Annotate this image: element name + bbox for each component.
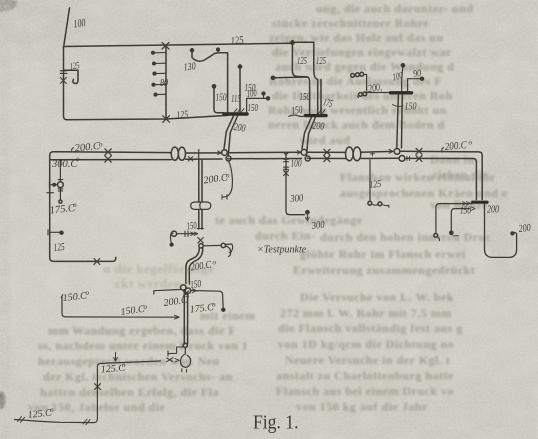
svg-text:ung, die auch darunter- und: ung, die auch darunter- und xyxy=(316,2,473,16)
svg-text:150: 150 xyxy=(216,93,228,104)
svg-text:200.C: 200.C xyxy=(444,140,468,153)
svg-text:300: 300 xyxy=(310,220,326,232)
svg-text:200: 200 xyxy=(233,122,246,135)
node T3a xyxy=(394,149,400,155)
svg-text:125: 125 xyxy=(369,179,382,191)
circles chain bottom xyxy=(359,93,363,97)
hook left of junction xyxy=(170,233,173,244)
node T3b xyxy=(399,156,405,162)
riser pair below fitting xyxy=(199,210,202,229)
arrows on main near T3 xyxy=(389,149,410,160)
wire left drop from header xyxy=(64,47,229,120)
step stub left of trap xyxy=(168,347,183,356)
flange F2b (dark bar) xyxy=(306,114,327,117)
svg-text:150: 150 xyxy=(291,104,304,116)
svg-text:von 150 kg auf die Jahr: von 150 kg auf die Jahr xyxy=(296,400,428,414)
node T1a xyxy=(222,150,228,156)
svg-text:200: 200 xyxy=(518,223,532,235)
svg-text:o: o xyxy=(50,406,54,414)
drop 150 into flange F1 xyxy=(238,65,241,68)
svg-text:Erweiterung zusammengedrückt: Erweiterung zusammengedrückt xyxy=(293,263,475,277)
bleed-through text right column xyxy=(215,2,508,414)
pipe hook 125 top-left xyxy=(64,70,79,83)
second flange assembly verticals xyxy=(292,44,306,77)
riser S-bend to lower junction xyxy=(186,248,203,284)
valve X pair at x327 xyxy=(324,149,330,155)
svg-text:90: 90 xyxy=(412,68,421,80)
curl from node T1b xyxy=(223,161,233,197)
svg-text:ckt werden: ckt werden xyxy=(115,276,182,291)
svg-text:stücke zerschnittener Rohre: stücke zerschnittener Rohre xyxy=(272,16,429,30)
svg-text:Flansban wirken einmal die: Flansban wirken einmal die xyxy=(340,170,496,184)
union fitting double-lobe xyxy=(191,202,211,209)
svg-text:o: o xyxy=(122,361,126,369)
svg-text:200,: 200, xyxy=(367,82,382,95)
comb tick 5 xyxy=(156,93,166,95)
svg-text:125: 125 xyxy=(176,109,189,121)
riser to trap xyxy=(184,290,187,344)
left arm with flange bars xyxy=(171,231,176,236)
middle branch 150 from F3 xyxy=(451,209,469,232)
squiggle branch 130 xyxy=(191,49,194,52)
svg-text:100: 100 xyxy=(246,89,257,100)
trap ticks xyxy=(182,369,187,373)
test arm right with node xyxy=(203,244,221,246)
junction cluster mid xyxy=(197,228,203,230)
svg-text:125: 125 xyxy=(297,56,307,67)
svg-text:80: 80 xyxy=(160,78,168,89)
fitting ticks on left drop xyxy=(60,71,67,74)
svg-text:glühte Rohr im Flansch erwei: glühte Rohr im Flansch erwei xyxy=(300,247,466,261)
svg-text:durch den hohen inneren Druc: durch den hohen inneren Druc xyxy=(320,230,492,244)
node T1b xyxy=(226,156,231,161)
svg-text:150: 150 xyxy=(190,279,203,291)
tee bar at x198.7 xyxy=(198,150,200,162)
tick with node on branch 100 xyxy=(263,94,265,98)
svg-text:200: 200 xyxy=(312,121,326,133)
svg-text:ss, nachdem unter einem Druck: ss, nachdem unter einem Druck von 1 xyxy=(38,339,248,353)
tee fitting on left vertical xyxy=(49,182,51,189)
node T2a xyxy=(301,149,307,155)
valve X on left downcomer bottom xyxy=(94,259,100,265)
fitting bars on drop xyxy=(284,159,289,162)
drop 100/300 at x286 xyxy=(286,153,305,215)
drop 125 mid-right xyxy=(370,152,374,156)
node T2b xyxy=(305,156,310,161)
svg-text:125: 125 xyxy=(230,34,245,47)
tee tick at top of drop xyxy=(283,152,288,155)
union fitting H2 (bowtie) xyxy=(346,147,354,161)
valve X top header xyxy=(162,43,169,50)
lower junction nodes xyxy=(181,285,186,290)
right branch U from F3 xyxy=(485,204,517,258)
arrow tick before T2 xyxy=(297,151,300,155)
svg-text:150: 150 xyxy=(300,92,311,103)
valve X pair on main at x108 xyxy=(105,149,112,155)
svg-text:der Kgl. technischen Versuchs-: der Kgl. technischen Versuchs- an xyxy=(43,370,233,384)
break marks on 125C line xyxy=(18,417,25,423)
main header upper 200C line xyxy=(50,152,116,262)
svg-text:150: 150 xyxy=(186,220,198,232)
svg-text:200: 200 xyxy=(487,205,500,216)
svg-text:anstalt zu Charlottenburg hatt: anstalt zu Charlottenburg hatte xyxy=(276,369,454,383)
comb tick 2 xyxy=(155,62,167,64)
comb tick 3 xyxy=(155,72,166,74)
svg-text:o: o xyxy=(469,139,473,147)
leader curl 200C right xyxy=(442,148,444,153)
bleed-through text bottom-left block xyxy=(28,309,255,415)
left arm 150C xyxy=(154,290,181,295)
wire top header xyxy=(64,43,293,46)
wire inlet slanted top-left xyxy=(64,8,70,47)
node below junction xyxy=(199,244,203,248)
downcomer diagonals from flange F1 xyxy=(224,116,234,149)
small x on lower line xyxy=(188,157,193,162)
svg-text:150: 150 xyxy=(460,206,472,217)
svg-text:o: o xyxy=(86,289,90,297)
main upper run xyxy=(53,151,482,199)
svg-text:125: 125 xyxy=(53,242,65,254)
arm 90 from flange F2 xyxy=(408,79,421,91)
branch 100 right of flange F1 xyxy=(247,98,268,112)
valve X on 125C riser xyxy=(95,384,101,390)
valve X on lower-left run xyxy=(163,116,170,123)
left branch from F3 xyxy=(436,204,473,234)
tick on squiggle xyxy=(217,50,219,53)
svg-text:durch Ein-: durch Ein- xyxy=(255,229,315,243)
arrow ticks at curl end xyxy=(222,195,227,199)
comb tick 1 xyxy=(154,52,167,54)
flange F2 (dark bar) xyxy=(391,91,412,94)
hatch marks above flange F1 xyxy=(234,109,244,113)
leader for 150 label xyxy=(393,105,403,107)
svg-text:o: o xyxy=(99,141,103,149)
arrow ticks before T1 xyxy=(218,151,222,155)
trap loop xyxy=(180,348,190,368)
arrows into F3 left xyxy=(463,202,471,205)
right end flange F3 (dark bar) xyxy=(473,201,487,204)
legend hook curl xyxy=(226,244,233,253)
branch valve drop from 300C line xyxy=(59,161,61,200)
svg-text:herausgepresst worden war. Ne: herausgepresst worden war. Neu xyxy=(38,354,220,368)
valve X pair at x419 xyxy=(416,148,422,154)
svg-text:o: o xyxy=(73,201,77,209)
svg-text:150: 150 xyxy=(248,103,259,114)
wavy 150 line into flange F2b xyxy=(289,115,305,117)
svg-text:o: o xyxy=(213,259,217,267)
svg-text:o: o xyxy=(76,155,80,163)
comb riser x166 xyxy=(165,46,167,119)
downcomer diagonals from flange F2b xyxy=(302,118,311,149)
tick on left vertical xyxy=(47,192,54,194)
svg-text:die Flansch vollständig fest a: die Flansch vollständig fest aus g xyxy=(278,321,463,335)
svg-text:Die Versuche von L. W. bek: Die Versuche von L. W. bek xyxy=(300,290,454,304)
svg-text:130: 130 xyxy=(183,61,197,73)
drop pipe 200C below main (double) xyxy=(199,161,202,203)
valve X on left drop xyxy=(60,78,66,84)
svg-text:mm Wandung ergeben, dass die F: mm Wandung ergeben, dass die F xyxy=(48,324,236,338)
svg-text:Fig. 1.: Fig. 1. xyxy=(253,413,299,434)
drop 150 left into flange F1 xyxy=(212,85,215,88)
node dot header end xyxy=(291,41,294,44)
main lower 300C line xyxy=(50,158,477,199)
125C approach line xyxy=(15,361,161,423)
stub on left vertical lower xyxy=(50,231,61,233)
svg-text:100: 100 xyxy=(291,159,303,170)
svg-text:272 mm l. W. Rohr mit 7,5 mm: 272 mm l. W. Rohr mit 7,5 mm xyxy=(280,306,452,320)
svg-text:o: o xyxy=(144,303,148,311)
svg-text:o: o xyxy=(226,172,230,180)
svg-text:300.C: 300.C xyxy=(51,159,78,170)
riser pair below flange F2 xyxy=(397,95,403,148)
drop 100 into flange F2 xyxy=(401,64,404,67)
valve X lower junction xyxy=(183,291,188,296)
150C approach line xyxy=(62,297,178,317)
svg-text:150: 150 xyxy=(405,102,418,113)
svg-text:×Testpunkte: ×Testpunkte xyxy=(257,245,307,256)
svg-text:o: o xyxy=(212,301,216,309)
valve X mid junction xyxy=(198,238,204,244)
svg-text:Dann in-: Dann in- xyxy=(430,153,479,167)
union fitting H1 (bowtie) xyxy=(171,147,178,160)
svg-text:300: 300 xyxy=(289,193,304,205)
svg-text:125: 125 xyxy=(316,56,326,67)
arrow on 150 branch xyxy=(471,207,475,211)
leader curl for 200C xyxy=(72,148,74,153)
svg-text:100: 100 xyxy=(73,17,87,31)
right assembly circles chain xyxy=(351,74,355,78)
svg-text:125: 125 xyxy=(69,61,80,72)
svg-text:hatten denselben Erfolg, die F: hatten denselben Erfolg, die Fla xyxy=(40,385,219,399)
hatch marks above flange F2b xyxy=(319,110,326,114)
right arm 175C xyxy=(191,291,224,309)
valve X on drop xyxy=(284,171,289,176)
svg-text:neren Druck auch dem Boden d: neren Druck auch dem Boden d xyxy=(268,118,445,132)
bleed-through faint wide line xyxy=(103,261,215,291)
down arrow on 125C elbow xyxy=(114,353,118,362)
svg-text:Neuere Versuche in der Kgl. t: Neuere Versuche in der Kgl. t xyxy=(285,353,450,367)
end fitting of drop elbow xyxy=(306,211,309,214)
svg-text:von 1D kg/qcm die Dichtung no: von 1D kg/qcm die Dichtung no xyxy=(278,337,454,351)
flange F1 (dark bar) xyxy=(224,112,247,116)
svg-text:Flansch aus bei einem Druck vo: Flansch aus bei einem Druck vo xyxy=(276,384,454,398)
svg-text:115: 115 xyxy=(231,94,241,105)
comb tick 4 xyxy=(154,83,166,85)
